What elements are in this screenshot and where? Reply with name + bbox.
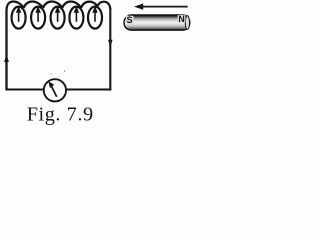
N pole label (178, 15, 186, 23)
coil loop 4 arrow (75, 12, 77, 22)
coil loop 2 arrow (37, 12, 39, 22)
magnet motion arrow (141, 6, 188, 8)
coil top crests (7, 2, 111, 10)
bar magnet body (124, 15, 190, 30)
dust specks (64, 71, 65, 72)
svg-text:Fig. 7.9: Fig. 7.9 (27, 103, 94, 125)
magnet right end cap (185, 16, 189, 30)
coil loop 1 arrow (18, 12, 20, 22)
coil loop 2 (31, 7, 45, 29)
galvanometer G (44, 79, 66, 101)
wire right vertical (109, 8, 111, 89)
arrow down on right wire (108, 40, 113, 47)
arrow up on left wire (4, 55, 9, 63)
galvanometer needle (51, 86, 57, 97)
S pole label (126, 16, 134, 24)
coil loop 1 (12, 7, 26, 29)
svg-text:N: N (178, 14, 184, 24)
coil loop 3 arrow (57, 12, 59, 22)
wire bottom right segment (66, 89, 112, 91)
coil loop 3 (51, 7, 65, 29)
coil loop 5 (88, 7, 102, 29)
coil loop 5 arrow (94, 12, 96, 22)
coil loop 4 (69, 7, 83, 29)
wire bottom left segment (5, 89, 44, 91)
svg-text:S: S (127, 15, 133, 25)
wire left vertical (5, 9, 7, 89)
